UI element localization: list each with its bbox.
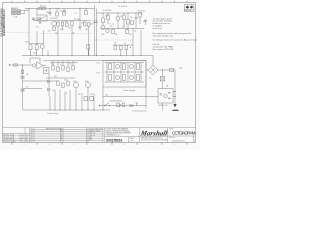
op-amp driver U1 (30, 58, 46, 69)
svg-text:47k: 47k (52, 90, 55, 92)
bleed dashed drop (119, 107, 121, 112)
resistor R34 (72, 66, 74, 71)
zener D1 (21, 76, 24, 79)
resistor R31 (57, 67, 59, 72)
bottom border ticks (12, 142, 187, 145)
bias wire lower (23, 88, 43, 90)
output transformer box T2 (158, 89, 173, 104)
scattered value labels (25, 11, 146, 55)
PI top wire (97, 12, 143, 14)
resistor R9 (88, 23, 94, 56)
svg-text:3: 3 (3, 135, 4, 137)
table bottom (3, 141, 197, 143)
svg-text:Part number JTM 502B: Part number JTM 502B (153, 48, 174, 51)
svg-text:1: 1 (99, 144, 100, 146)
svg-text:10k: 10k (51, 64, 54, 66)
svg-text:82k: 82k (115, 34, 118, 36)
svg-text:10.2: 10.2 (21, 137, 24, 139)
svg-text:V1a: V1a (36, 27, 39, 29)
smoothing cap C24 (123, 75, 126, 81)
pilot lamp LP1 (160, 70, 164, 89)
resistor R35 (57, 81, 59, 86)
svg-text:schematic boards carry: schematic boards carry (153, 35, 174, 38)
svg-text:issue level: issue level (153, 28, 163, 30)
svg-text:R52 10k: R52 10k (40, 6, 46, 8)
svg-text:470k: 470k (46, 12, 50, 14)
wire drop V2 feed (79, 8, 81, 20)
svg-text:47k: 47k (114, 43, 117, 45)
svg-text:MOD 998: MOD 998 (6, 139, 13, 141)
zener pair D3 (48, 74, 51, 96)
resistor R36 (62, 83, 64, 88)
svg-text:2: 2 (74, 144, 75, 146)
svg-text:4k7: 4k7 (26, 87, 29, 89)
cathode resistor R38 (84, 97, 87, 101)
svg-text:2: 2 (3, 137, 4, 139)
svg-text:0.022: 0.022 (64, 21, 68, 23)
psu feed labels (96, 63, 100, 75)
notes text block top right (153, 17, 197, 51)
verticals revision block (33, 128, 35, 143)
PI cathode wire (100, 27, 144, 29)
tap arrows (175, 91, 177, 93)
svg-text:47k: 47k (63, 12, 66, 14)
capacitor C8 (135, 13, 138, 28)
fuse F3 on rail (43, 7, 46, 9)
svg-text:V3: V3 (120, 16, 122, 18)
svg-text:SHEET: SHEET (130, 138, 135, 140)
svg-text:470k: 470k (60, 29, 64, 31)
svg-text:470: 470 (78, 94, 81, 96)
svg-text:Standby Switch: Standby Switch (110, 99, 122, 102)
svg-text:3: 3 (49, 144, 50, 146)
svg-text:C2 22n: C2 22n (36, 19, 41, 21)
rectifier V9 (116, 76, 120, 80)
resistor R23 (127, 13, 130, 28)
chassis dashed line centre (40, 33, 92, 35)
svg-text:Power Supply: Power Supply (124, 89, 136, 92)
feedback network row (113, 45, 133, 56)
svg-text:82k: 82k (130, 17, 133, 19)
resistor R25 (126, 28, 129, 33)
bridge rectifier BR1 (146, 56, 175, 76)
psu right edge drop (145, 61, 147, 109)
svg-text:220k: 220k (64, 80, 68, 82)
svg-text:MODEL 1986 BASS SERIES CCT: MODEL 1986 BASS SERIES CCT (2, 9, 6, 36)
svg-text:470: 470 (72, 33, 75, 35)
resistor R7 (71, 22, 73, 56)
svg-text:50u: 50u (149, 78, 152, 80)
coupling cap C2 (32, 17, 35, 21)
svg-text:5k: 5k (124, 43, 126, 45)
svg-text:Presence: Presence (138, 9, 145, 12)
fuse F2 on rail (39, 7, 42, 9)
svg-text:100k: 100k (101, 34, 105, 36)
valve V2a (40, 45, 44, 49)
drg no cell (169, 137, 195, 142)
grid stopper wire row (46, 77, 75, 79)
svg-text:DRG No: DRG No (169, 137, 175, 139)
grid resistor R1 (21, 65, 23, 110)
long drop from rail to mixer (28, 8, 30, 43)
transformer tail (162, 103, 164, 111)
standards cell text (106, 127, 131, 136)
svg-text:C3: C3 (60, 11, 62, 13)
bus junction dots (30, 55, 142, 56)
resistor R32 (62, 66, 64, 71)
smoothing cap C21 (123, 64, 126, 70)
border frame (3, 3, 196, 143)
revision row numbers (32, 127, 63, 143)
svg-text:JB: JB (26, 139, 28, 141)
HT rail wire (25, 7, 95, 9)
logo box top-right (184, 5, 194, 13)
left block entries (3, 135, 28, 144)
ground bus bottom (23, 109, 111, 111)
svg-text:12.4: 12.4 (21, 135, 24, 137)
diode D5 (130, 103, 138, 107)
svg-text:1 OF 1: 1 OF 1 (130, 140, 135, 142)
input wire (10, 64, 32, 66)
resistor R4 (57, 21, 59, 56)
resistor R26 (131, 21, 134, 25)
svg-text:0: 0 (3, 141, 4, 143)
valve V4 (106, 29, 110, 33)
relay box RL1 (37, 8, 47, 21)
svg-text:C5: C5 (75, 13, 77, 15)
svg-text:V1 ECC83: V1 ECC83 (50, 18, 58, 20)
svg-text:MOD 1050: MOD 1050 (6, 135, 14, 137)
svg-text:FIRST ISSUE: FIRST ISSUE (6, 141, 16, 143)
power supply box (103, 61, 146, 88)
svg-text:R7 100k: R7 100k (74, 19, 80, 21)
svg-text:EL34: EL34 (73, 81, 77, 83)
smoothing cap C20 (109, 64, 112, 70)
smoothing cap C22 (137, 64, 140, 70)
svg-text:R31: R31 (54, 76, 57, 78)
node J (22, 64, 23, 65)
bias box U2 (44, 68, 50, 74)
svg-text:To V2: To V2 (96, 73, 100, 75)
standby switch SW2 (99, 99, 147, 106)
table outline top (3, 127, 197, 129)
rectifier V8 (130, 65, 134, 69)
valve V3a (101, 26, 105, 30)
svg-text:4: 4 (24, 144, 25, 146)
resistor R14 drop (87, 45, 90, 56)
svg-text:10k: 10k (69, 64, 72, 66)
svg-text:DRN J.B: DRN J.B (89, 133, 95, 135)
svg-text:F: F (61, 139, 62, 141)
title block verticals (139, 128, 141, 143)
svg-text:1k: 1k (66, 93, 68, 95)
resistor R5 (61, 21, 63, 31)
resistor R10 (85, 8, 88, 14)
svg-text:10k: 10k (134, 31, 137, 33)
HT bus lower (103, 96, 158, 98)
presence pot VR5 (138, 9, 145, 55)
Marshall arrow logo left diamond (186, 6, 190, 9)
svg-text:live voltages when unit is pow: live voltages when unit is powered. Appr… (153, 39, 197, 42)
resistor R12 (29, 45, 32, 50)
resistor R6 (66, 21, 68, 27)
power section labels (26, 64, 182, 97)
resistor R8 (84, 21, 86, 26)
svg-text:7: 7 (149, 144, 150, 146)
resistor R20 (102, 13, 105, 26)
svg-text:820: 820 (82, 23, 85, 25)
HT drop right (174, 70, 176, 104)
resistor R22 (123, 13, 126, 28)
bias wire (23, 80, 59, 82)
svg-text:C6 47n: C6 47n (25, 42, 30, 44)
cathode columns to bus (50, 88, 94, 110)
psu left edge drop (102, 87, 104, 110)
extra PI wiring marks (108, 24, 114, 29)
svg-text:EL34: EL34 (85, 81, 89, 83)
svg-text:1k5: 1k5 (110, 26, 113, 28)
svg-text:JB: JB (26, 141, 28, 143)
valve V1a (52, 21, 57, 31)
svg-text:C40: C40 (105, 95, 108, 97)
svg-text:10k: 10k (129, 34, 132, 36)
resistor R53 (56, 8, 59, 16)
drop from anode wire (36, 31, 38, 45)
zener D2 (21, 89, 24, 92)
svg-text:Power Stage: Power Stage (48, 112, 59, 115)
rectifier V7 (116, 65, 120, 69)
svg-text:1: 1 (3, 139, 4, 141)
output valve V5 (73, 82, 78, 87)
smoothing cap C23 (109, 75, 112, 81)
svg-text:1M5: 1M5 (85, 29, 88, 31)
part labels (36, 18, 80, 31)
revision rows (31, 129, 103, 131)
chassis dashed line left (3, 31, 30, 33)
verticals left block (4, 134, 6, 143)
svg-text:CCT DIAGRAM: CCT DIAGRAM (172, 131, 196, 136)
svg-text:To V1: To V1 (96, 63, 100, 65)
svg-text:8: 8 (124, 144, 125, 146)
screen feed vertical pair (93, 5, 98, 56)
output valve V6 (85, 82, 90, 87)
svg-text:470: 470 (90, 94, 93, 96)
speaker taps (173, 92, 175, 97)
resistor R21 (107, 13, 110, 24)
resistor R33 (67, 67, 69, 72)
top border ticks (12, 1, 187, 3)
svg-text:MOD 1012: MOD 1012 (6, 137, 14, 139)
psu internal rails (105, 63, 144, 83)
svg-text:1.1: 1.1 (21, 141, 23, 143)
drop to bus x133 (132, 28, 134, 55)
PI labels (101, 34, 132, 36)
rail junction dots (28, 8, 29, 9)
smoothing cap C25 (137, 75, 140, 81)
capacitor C30 (49, 8, 52, 16)
svg-text:Marshall: Marshall (139, 129, 168, 137)
series cap C1 (14, 64, 17, 66)
svg-text:JB: JB (26, 135, 28, 137)
section top edge (44, 60, 147, 62)
drop x48 (47, 51, 49, 56)
capacitor C9 (144, 20, 147, 25)
Marshall arrow logo right diamond (190, 6, 194, 9)
svg-text:8.1: 8.1 (21, 139, 23, 141)
resistor R13 (35, 45, 38, 50)
svg-text:E: E (61, 137, 62, 139)
svg-text:To switch loop area: To switch loop area (132, 110, 147, 113)
capacitor C4 (79, 21, 82, 31)
mid block entries (89, 128, 103, 141)
driver column wires (50, 61, 78, 68)
rectifier V10 (130, 76, 134, 80)
svg-text:2k7: 2k7 (48, 31, 51, 33)
svg-text:1k: 1k (60, 64, 62, 66)
earth bus wire (22, 55, 153, 57)
svg-text:S001/58/10: S001/58/10 (106, 138, 123, 142)
mains fuse block FS1 (11, 7, 29, 19)
svg-text:6: 6 (174, 144, 175, 146)
input terminal (9, 64, 10, 65)
svg-text:JB: JB (26, 137, 28, 139)
bottom margin zone digits (24, 144, 175, 146)
mixer wire (29, 43, 45, 45)
svg-text:B: B (61, 130, 62, 132)
svg-text:S001/58/10 B: S001/58/10 B (172, 140, 185, 142)
svg-text:OUTPUT 8-16: OUTPUT 8-16 (158, 105, 168, 107)
earth arrow (173, 104, 176, 108)
svg-text:56k: 56k (69, 28, 72, 30)
drop from anode wire 2 (43, 31, 45, 45)
svg-text:220k: 220k (33, 53, 37, 55)
ground tap (39, 21, 42, 23)
resistor R37 (67, 81, 69, 86)
svg-text:CIRCUIT REF S001: CIRCUIT REF S001 (89, 128, 103, 130)
resistor R30 (52, 66, 54, 71)
cathode resistor R39 (90, 97, 93, 101)
chassis dashed line right (95, 39, 133, 41)
preamp anode wire (34, 20, 92, 22)
svg-text:CHK D.R: CHK D.R (89, 135, 96, 137)
fuse F4 on HT (170, 69, 174, 72)
earth bar (173, 109, 179, 111)
electrolytic C31 (63, 8, 66, 15)
valve V0 input (32, 64, 35, 67)
svg-text:2 x ECC83: 2 x ECC83 (103, 10, 111, 12)
left margin vertical issue text (0, 8, 6, 37)
svg-text:7.5-76 Vo H: 7.5-76 Vo H (118, 6, 128, 8)
valve V3b (116, 13, 120, 28)
mixer tails (31, 49, 43, 56)
cap C26 (117, 103, 125, 107)
resistor R24 (112, 28, 115, 33)
